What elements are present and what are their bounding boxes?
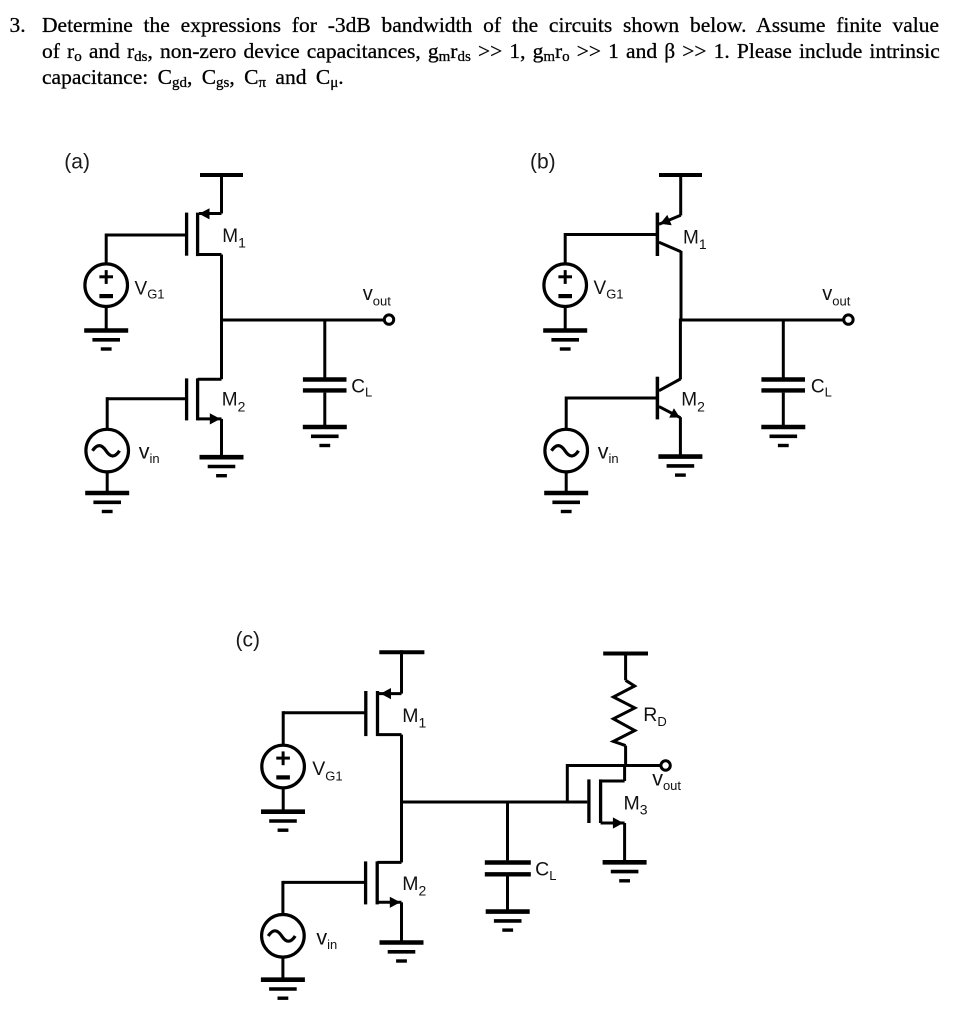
svg-text:(b): (b) [530,150,556,173]
svg-text:(a): (a) [64,151,90,174]
svg-text:M2: M2 [222,390,246,415]
svg-text:VG1: VG1 [135,278,165,301]
svg-text:CL: CL [351,376,372,399]
svg-text:vin: vin [598,439,619,466]
svg-text:RD: RD [643,704,666,729]
svg-text:CL: CL [535,859,556,884]
svg-text:vin: vin [316,925,337,952]
svg-text:M1: M1 [222,226,246,251]
svg-text:M1: M1 [683,227,707,252]
svg-text:vout: vout [363,283,391,309]
svg-text:M2: M2 [402,873,426,898]
svg-text:(c): (c) [236,628,261,651]
svg-text:M1: M1 [402,705,426,730]
svg-text:CL: CL [811,376,832,399]
svg-text:M3: M3 [624,792,648,817]
svg-text:VG1: VG1 [594,278,624,302]
svg-text:VG1: VG1 [312,758,342,783]
svg-text:vin: vin [139,439,160,466]
svg-text:vout: vout [822,283,850,309]
svg-text:M2: M2 [681,390,705,415]
